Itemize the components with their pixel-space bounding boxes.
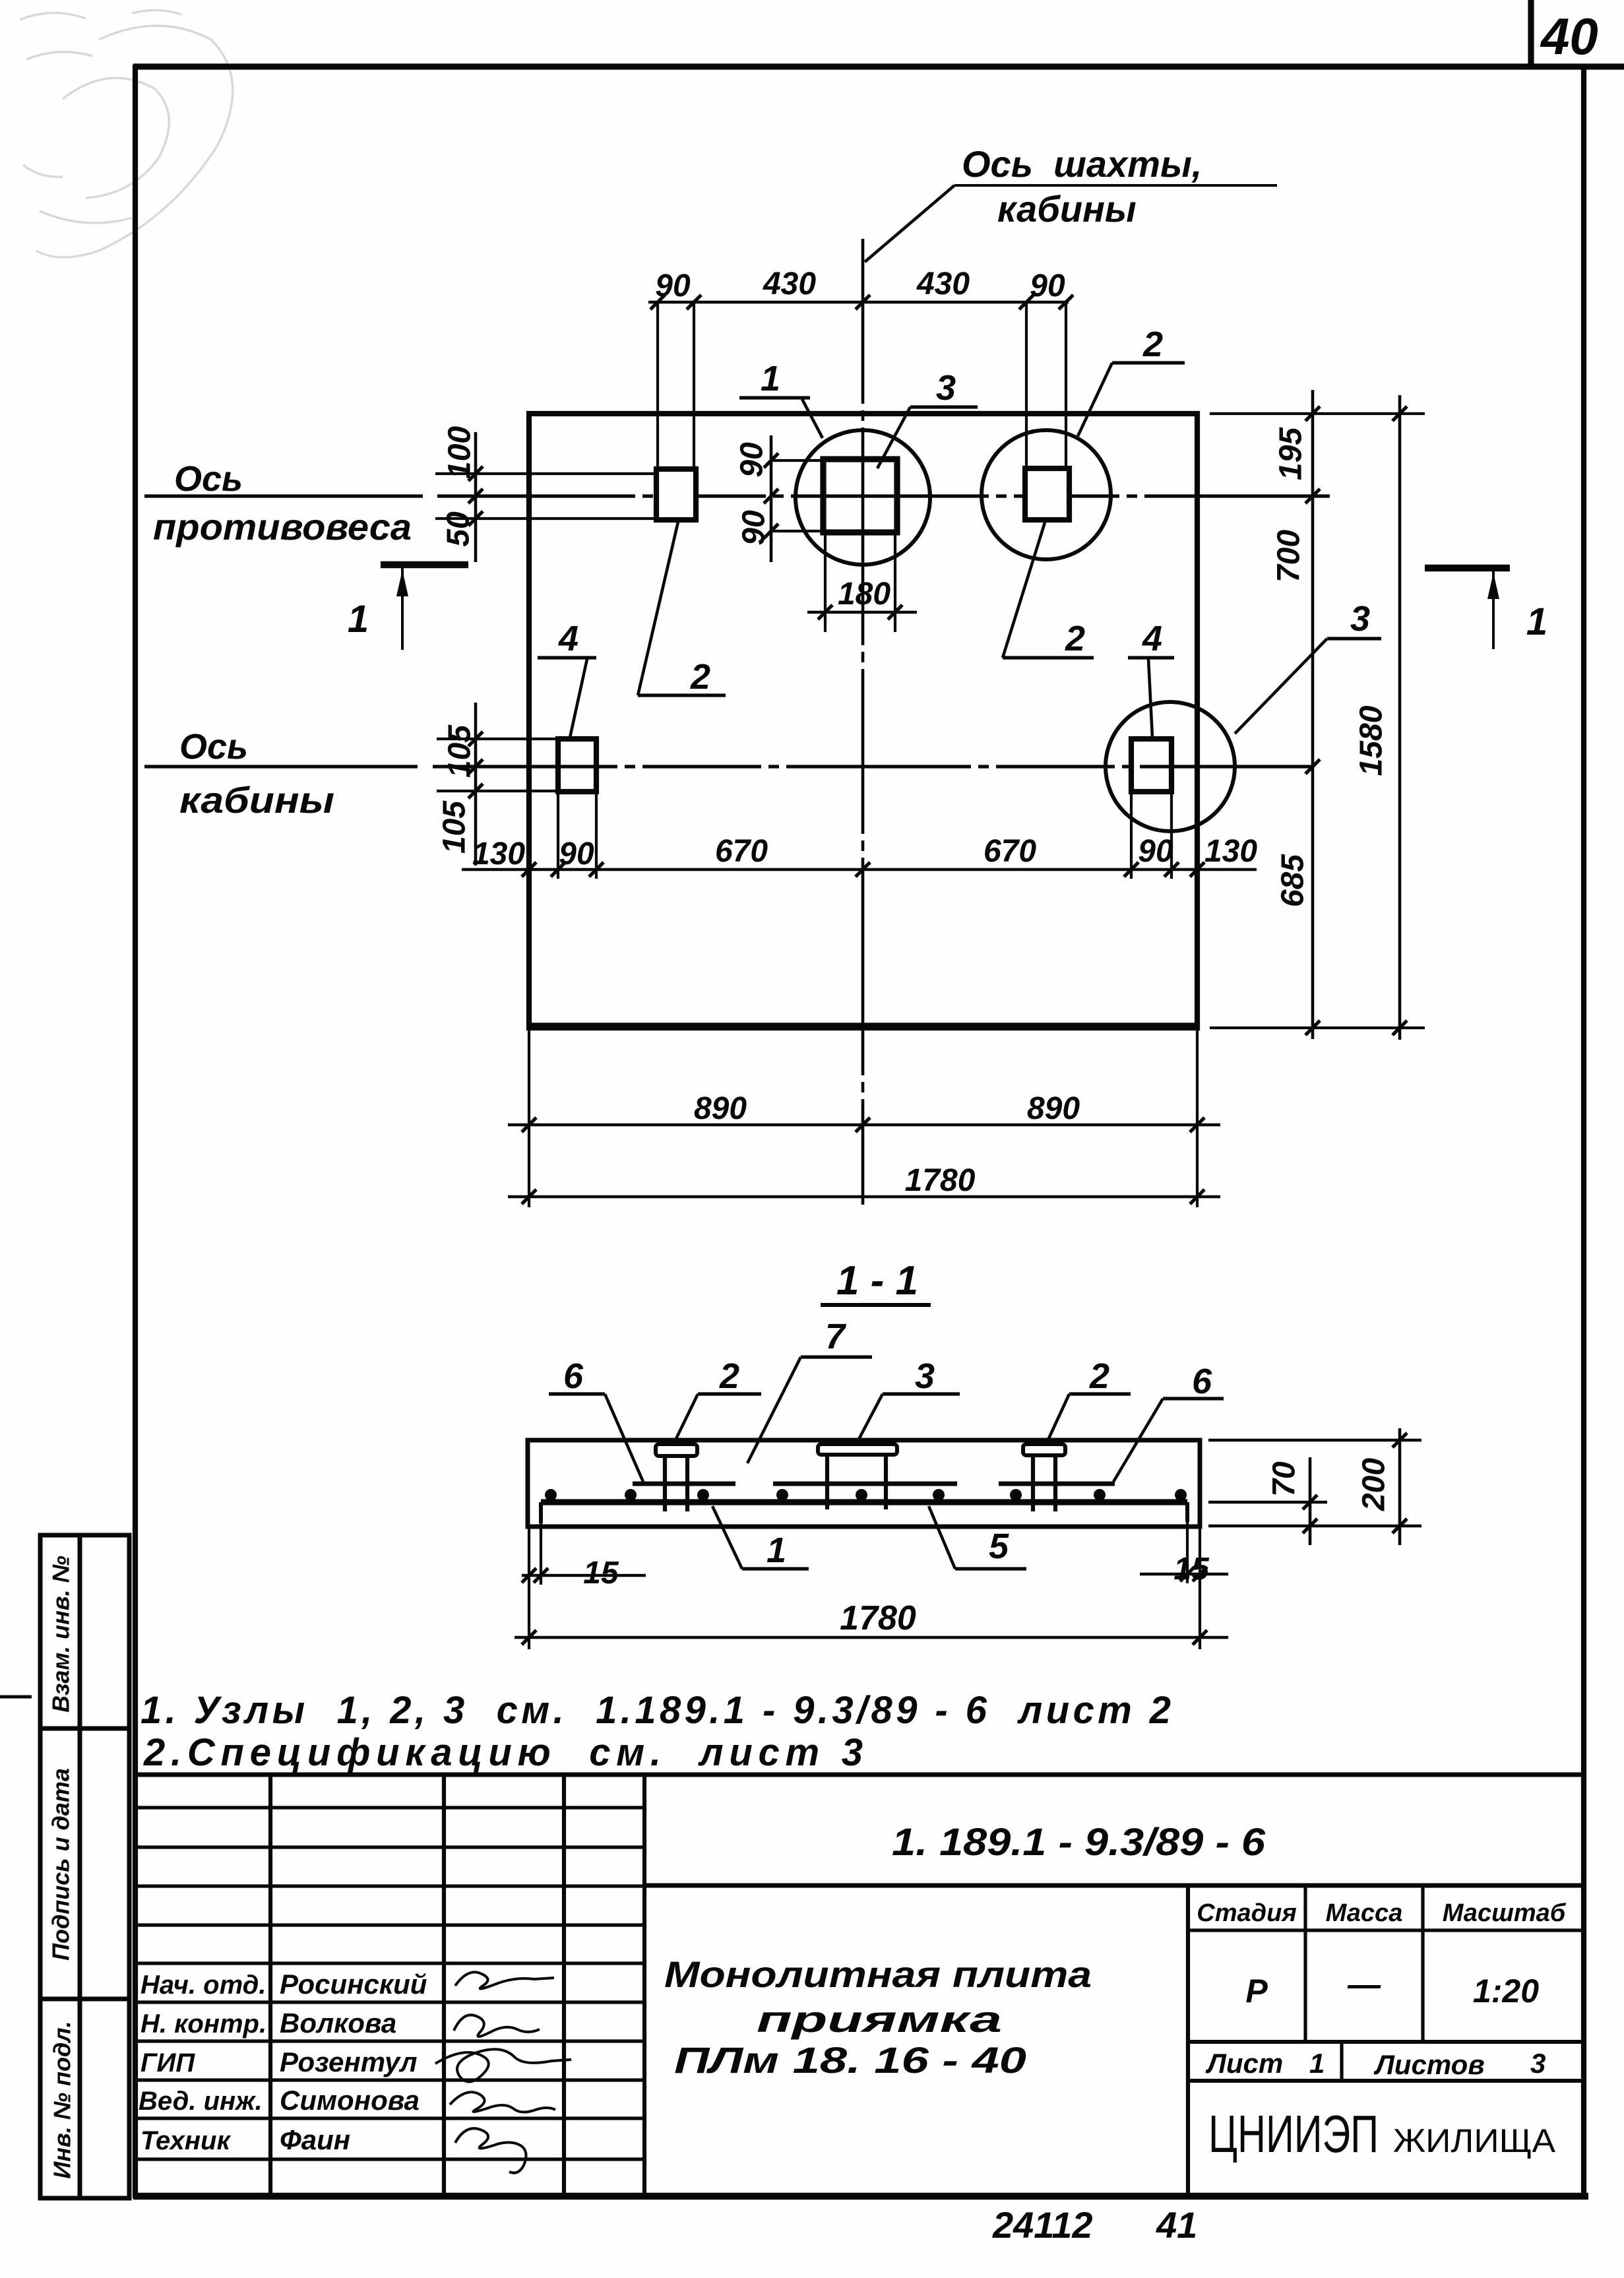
svg-text:195: 195: [1274, 427, 1309, 480]
right extension top of section: [1208, 1439, 1421, 1442]
anchor bar item6 segment 1: [633, 1482, 735, 1486]
underline of ось шахты: [954, 184, 1277, 187]
dim line 1780: [508, 1195, 1220, 1199]
designation cell bottom line: [644, 1883, 1584, 1888]
drawing frame top border: [133, 63, 1624, 69]
signature 1: [455, 1972, 554, 1988]
svg-text:2: 2: [1065, 619, 1085, 658]
svg-text:670: 670: [984, 834, 1036, 869]
detail circle top-right: [982, 430, 1111, 559]
section cut mark right: bar: [1425, 565, 1510, 572]
bottom mesh chord (heavy): [541, 1499, 1187, 1505]
extension centre square bottom: [771, 530, 823, 532]
svg-text:4: 4: [558, 619, 578, 658]
dim ticks top chain: [650, 295, 1073, 309]
bottom inner dim chain 130/90/670/670/90/130: [462, 868, 1257, 871]
svg-text:90: 90: [655, 269, 691, 303]
svg-text:90: 90: [1138, 834, 1173, 869]
detail circle bottom-right: [1106, 702, 1235, 831]
embed assembly centre: legs: [825, 1455, 829, 1509]
svg-text:—: —: [1347, 1966, 1381, 2003]
drawing frame bottom border: [133, 2193, 1588, 2200]
svg-text:6: 6: [563, 1356, 584, 1396]
ticks 890: [522, 1118, 1204, 1132]
svg-text:130: 130: [472, 837, 525, 871]
svg-text:70: 70: [1267, 1461, 1302, 1497]
svg-text:180: 180: [838, 577, 890, 612]
leader to centre line: [865, 185, 954, 262]
svg-text:ГИП: ГИП: [141, 2048, 195, 2077]
extension line lower box top: [437, 738, 558, 740]
dim line 1780 section: [515, 1636, 1228, 1639]
svg-text:1:20: 1:20: [1473, 1973, 1539, 2009]
svg-text:685: 685: [1276, 854, 1311, 907]
svg-text:7: 7: [825, 1317, 847, 1356]
left 105/105 dim line: [474, 703, 478, 866]
anchor bar item6 segment 3: [999, 1482, 1115, 1486]
vertical centre line (ось шахты, кабины): [861, 239, 865, 1205]
svg-text:105: 105: [437, 800, 472, 854]
svg-text:3: 3: [936, 368, 956, 408]
signature 4: [450, 2092, 555, 2112]
svg-text:Лист: Лист: [1205, 2048, 1283, 2079]
right extension bottom of section: [1208, 1525, 1421, 1528]
svg-text:1. 189.1 - 9.3/89 - 6: 1. 189.1 - 9.3/89 - 6: [892, 1821, 1266, 1864]
section cut mark right: stem: [1492, 571, 1495, 649]
extension below mesh left hook: [540, 1523, 542, 1585]
svg-text:41: 41: [1156, 2204, 1197, 2246]
svg-text:700: 700: [1272, 530, 1307, 583]
axis противовеса dash-dot: [437, 494, 1330, 497]
embed assembly right: legs: [1031, 1455, 1035, 1511]
signature 5: [455, 2128, 526, 2172]
transverse rebar dots: [545, 1489, 1187, 1501]
section title underline: [821, 1303, 931, 1307]
signature 3: [435, 2049, 571, 2081]
svg-text:3: 3: [1350, 599, 1370, 639]
extension lines lower-right embed: [1130, 792, 1133, 879]
svg-text:Росинский: Росинский: [280, 1969, 427, 2000]
svg-text:2: 2: [719, 1356, 739, 1396]
svg-text:ПЛм 18. 16 - 40: ПЛм 18. 16 - 40: [674, 2039, 1026, 2081]
detail circle centre: [796, 430, 930, 565]
embed plate node4 bottom-right: [1131, 739, 1171, 792]
title block row lines (left table): [135, 1808, 644, 2159]
embed plate node2 top-right: [1025, 468, 1069, 520]
ticks right chain: [1305, 406, 1407, 1035]
dim line 15 right: [1140, 1573, 1228, 1576]
title block column lines: [270, 1775, 1188, 2196]
svg-text:40: 40: [1540, 7, 1598, 65]
right dim line 1580: [1398, 395, 1402, 1040]
extension below slab right edge: [1199, 1528, 1201, 1649]
extension line lower box bottom: [437, 790, 596, 792]
90/90 dim line at centre square: [770, 435, 773, 562]
mesh right hook: [1185, 1502, 1189, 1522]
svg-text:130: 130: [1204, 834, 1257, 869]
svg-text:2: 2: [1142, 325, 1163, 364]
ticks 90/90: [764, 453, 778, 538]
180 dim line: [807, 611, 917, 614]
svg-text:кабины: кабины: [179, 779, 334, 821]
extension line box bottom: [435, 517, 656, 520]
svg-text:1780: 1780: [840, 1599, 916, 1637]
drawing frame right border: [1581, 67, 1586, 2198]
ticks 70: [1303, 1495, 1317, 1533]
axis кабины solid segment: [144, 765, 418, 768]
embed plate node1/3 centre: [823, 459, 897, 532]
extensions from centre square sides: [824, 532, 827, 632]
svg-text:кабины: кабины: [997, 188, 1137, 230]
svg-text:24112: 24112: [992, 2204, 1093, 2246]
svg-text:4: 4: [1142, 619, 1162, 658]
svg-text:890: 890: [694, 1091, 747, 1126]
svg-text:Розентул: Розентул: [280, 2046, 418, 2077]
svg-text:90: 90: [735, 442, 770, 478]
embed assembly centre: plate: [818, 1444, 897, 1455]
svg-text:ЖИЛИЩА: ЖИЛИЩА: [1393, 2122, 1556, 2159]
svg-text:Нач. отд.: Нач. отд.: [141, 1971, 266, 2000]
svg-text:1: 1: [761, 359, 780, 398]
svg-text:100: 100: [443, 426, 478, 479]
stage table header lines: [1188, 1928, 1584, 1932]
svg-text:Фаин: Фаин: [280, 2124, 350, 2155]
svg-text:Р: Р: [1245, 1973, 1268, 2009]
svg-text:Монолитная плита: Монолитная плита: [664, 1953, 1092, 1995]
svg-text:6: 6: [1192, 1362, 1212, 1401]
svg-text:90: 90: [559, 837, 594, 871]
left attribute strip outer box: [40, 1535, 129, 2198]
extension line box top: [435, 472, 656, 475]
dim line 890/890: [508, 1123, 1220, 1127]
title block top line: [135, 1773, 1584, 1777]
ticks 105/105: [468, 732, 483, 798]
extension lines from top-left embed: [656, 302, 659, 466]
section slab outline: [528, 1440, 1200, 1527]
right extension line slab bottom: [1210, 1027, 1425, 1029]
axis противовеса solid segment: [144, 494, 423, 497]
extension lines lower-left embed: [557, 792, 559, 879]
svg-text:ЦНИИЭП: ЦНИИЭП: [1208, 2104, 1379, 2163]
svg-text:90: 90: [737, 510, 772, 546]
svg-text:Масса: Масса: [1326, 1899, 1403, 1927]
dim line 15 left: [522, 1574, 646, 1577]
strip section divider 1: [40, 1726, 129, 1731]
signature 2: [454, 2015, 540, 2037]
extension below slab left edge: [528, 1528, 530, 1649]
svg-text:15: 15: [583, 1556, 619, 1591]
anchor bar item6 segment 2: [773, 1482, 957, 1486]
svg-text:противовеса: противовеса: [153, 506, 412, 548]
svg-text:670: 670: [715, 834, 768, 869]
svg-text:Подпись и дата: Подпись и дата: [47, 1768, 75, 1961]
svg-text:3: 3: [915, 1356, 935, 1396]
slab bottom edge (heavy): [528, 1023, 1199, 1030]
svg-text:430: 430: [916, 267, 970, 301]
extension verticals below slab corners: [528, 1029, 530, 1207]
left 100/50 dim line: [474, 432, 478, 562]
right extension line slab top: [1210, 412, 1425, 415]
dim line 70: [1309, 1457, 1312, 1545]
ticks 100/50: [468, 466, 483, 526]
svg-text:50: 50: [441, 511, 476, 547]
ticks 15 right: [1180, 1567, 1207, 1581]
sheet row lines: [1188, 2040, 1584, 2044]
svg-text:приямка: приямка: [757, 1998, 1002, 2040]
svg-text:90: 90: [1030, 269, 1065, 303]
embed assembly left: legs: [663, 1456, 667, 1511]
drawing frame left border: [133, 65, 138, 2198]
ticks chain: [522, 862, 1204, 877]
extension lines from top-right embed: [1025, 302, 1028, 466]
svg-text:105: 105: [443, 724, 478, 778]
section cut mark left: arrowhead: [396, 570, 408, 596]
svg-text:1: 1: [348, 598, 369, 641]
svg-text:Техник: Техник: [141, 2126, 231, 2155]
slab outline: [529, 414, 1197, 1028]
embed plate node2 top-left: [656, 469, 696, 520]
svg-text:1: 1: [1526, 600, 1547, 643]
svg-text:Ось: Ось: [179, 727, 248, 767]
strip section divider 2: [40, 1997, 129, 2002]
svg-text:1580: 1580: [1354, 705, 1389, 776]
svg-text:Взам. инв. №: Взам. инв. №: [47, 1556, 75, 1713]
top dimension line 90/430/430/90: [648, 301, 1069, 304]
embed plate node4 bottom-left: [558, 739, 596, 792]
section cut mark left: stem: [401, 567, 404, 650]
svg-text:Стадия: Стадия: [1197, 1899, 1296, 1927]
svg-text:Волкова: Волкова: [280, 2008, 396, 2039]
ticks 200: [1392, 1433, 1407, 1533]
scanner smudge top-left: [20, 10, 233, 257]
section cut mark right: arrowhead: [1487, 573, 1499, 599]
svg-text:890: 890: [1027, 1091, 1080, 1126]
svg-text:Масштаб: Масштаб: [1443, 1899, 1567, 1927]
mesh left hook: [539, 1502, 543, 1523]
embed assembly left: plate: [656, 1444, 697, 1456]
embed assembly right: plate: [1023, 1444, 1065, 1455]
paper fold mark left edge: [0, 1695, 32, 1699]
svg-text:2: 2: [690, 657, 710, 697]
strip column divider: [78, 1535, 82, 2198]
svg-text:3: 3: [1530, 2048, 1546, 2079]
ticks 1780: [522, 1189, 1204, 1204]
ticks 180: [818, 605, 902, 619]
dim line 200: [1398, 1428, 1402, 1545]
svg-text:Симонова: Симонова: [280, 2085, 420, 2116]
svg-text:1: 1: [766, 1531, 786, 1570]
ticks 15 left: [522, 1568, 548, 1583]
extension centre square top: [771, 459, 823, 462]
svg-text:2: 2: [1089, 1356, 1109, 1396]
svg-text:1780: 1780: [905, 1163, 976, 1198]
svg-text:Ось шахты,: Ось шахты,: [962, 143, 1202, 185]
svg-text:15: 15: [1173, 1552, 1210, 1587]
axis кабины dash-dot: [433, 765, 1313, 768]
right extension mesh level: [1208, 1501, 1327, 1504]
svg-text:1: 1: [1309, 2048, 1325, 2079]
right dim line chain 195/700/685: [1311, 390, 1315, 1039]
svg-text:200: 200: [1357, 1458, 1392, 1511]
svg-text:Вед. инж.: Вед. инж.: [139, 2087, 263, 2116]
svg-text:1 - 1: 1 - 1: [836, 1258, 918, 1304]
svg-text:Листов: Листов: [1373, 2049, 1485, 2080]
svg-text:5: 5: [989, 1527, 1009, 1566]
ticks 1780 section: [522, 1630, 1207, 1645]
svg-text:Инв. № подл.: Инв. № подл.: [49, 2021, 76, 2178]
svg-text:430: 430: [763, 267, 816, 301]
page number box divider: [1528, 0, 1534, 67]
extension below mesh right hook: [1186, 1522, 1189, 1583]
svg-text:Н. контр.: Н. контр.: [141, 2009, 266, 2039]
svg-text:Ось: Ось: [174, 459, 243, 499]
section cut mark left: bar: [381, 561, 468, 569]
